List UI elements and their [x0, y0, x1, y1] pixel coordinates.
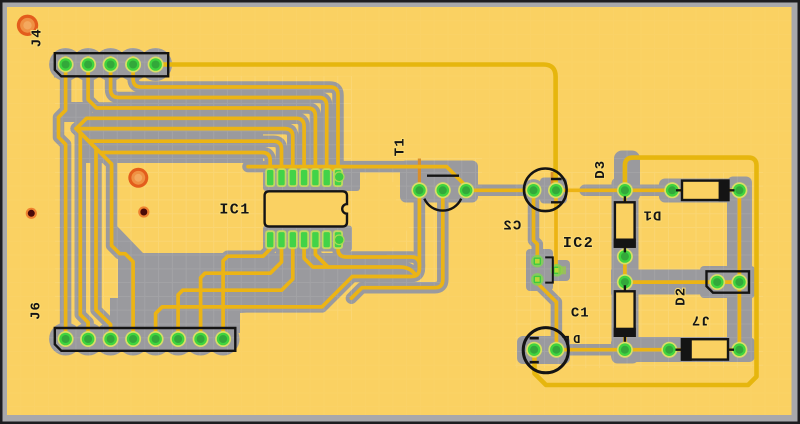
IC1 pin 3 pad (top row): [288, 168, 298, 187]
wire J4 pin2 to IC1 pin 5 clearance: [88, 58, 315, 172]
connector J4 pin 3 pad: [103, 57, 119, 73]
diode D2 cathode band: [615, 329, 635, 336]
IC1 pin 9 pad (bottom row): [322, 230, 332, 249]
connector J4 pin 4 pad: [125, 57, 141, 73]
svg-text:D2: D2: [673, 287, 689, 306]
capacitor C2 outline: [524, 169, 567, 212]
diode D1 cathode band: [615, 240, 635, 247]
connector J4 pin 2 pad clearance: [77, 53, 99, 75]
svg-text:C2: C2: [502, 218, 521, 234]
staircase clearance below island: [118, 253, 352, 313]
wire IC1 pin 12 to J6 pin6 clearance: [178, 244, 293, 332]
connector J6 pin 3 pad: [103, 331, 119, 347]
connector J6 pin 1 pad clearance: [54, 328, 76, 350]
connector J4 outline: [55, 53, 168, 76]
diode D2 anode pad: [617, 274, 633, 290]
svg-text:C1: C1: [571, 306, 590, 322]
wire loop node A to C1 minus: [535, 158, 757, 385]
connector J6 pin 8 pad clearance: [212, 328, 234, 350]
node C pad: [617, 342, 633, 358]
wire fan node to J6 pin4: [76, 129, 133, 334]
island corner 45deg clearance: [117, 226, 143, 253]
wire C1 plus to J7 anode: [556, 348, 682, 352]
wire J4 pin1 to J6 pin1: [59, 58, 66, 334]
IC1 pin 11 pad (bottom row): [299, 230, 309, 249]
IC1 pin 10 pad (bottom row): [310, 230, 320, 249]
connector J4 pad 4 clearance: [117, 48, 150, 81]
svg-text:IC1: IC1: [219, 202, 250, 219]
wire node A to D1 anode: [623, 190, 627, 202]
clearance above J6: [110, 298, 240, 333]
wire T1 base bottom-copper stub: [418, 159, 421, 185]
IC1 pin 13 pad (bottom row): [277, 230, 287, 249]
wire fan node to IC1 pin 4: [76, 118, 304, 172]
connector J6 pin 1 pad: [58, 331, 74, 347]
wire C1 plus to J7 clearance: [556, 344, 739, 356]
wire T1 collector down: [351, 186, 442, 298]
connector J6 pin 3 pad clearance: [99, 328, 121, 350]
capacitor C2 pads clearance: [522, 179, 544, 201]
loop corner clearance: [614, 151, 640, 203]
connector J4 pad 2 clearance: [72, 48, 105, 81]
connector J6 pad 4 clearance: [117, 323, 150, 356]
wire IC1 pin 13 to J6 pin7 clearance: [201, 244, 282, 332]
IC1 top pads clearance: [263, 166, 360, 192]
transistor T1 pads clearance: [408, 179, 430, 201]
wire J4 pin4 to IC1 pin 7 clearance: [133, 58, 338, 172]
diode D1 cathode pad: [617, 249, 633, 265]
wire IC1 pin 11 to U-turn clearance: [304, 244, 416, 275]
connector J5 pads: [709, 274, 725, 290]
wire T1 collector down clearance: [351, 186, 442, 298]
wire D2 cathode to node C: [623, 336, 627, 350]
transistor T1 outline flat edge: [427, 174, 459, 176]
wire fan node to J6 pin4 clearance: [76, 129, 133, 334]
svg-text:J4: J4: [30, 28, 46, 47]
svg-text:D1: D1: [643, 206, 662, 222]
connector J4 pin 1 pad: [58, 57, 74, 73]
connector J4 pin 5 pad clearance: [144, 53, 166, 75]
diode J7 pads: [661, 342, 677, 358]
wire T1 emitter to C2 minus: [466, 188, 533, 192]
diode D1 body: [615, 202, 635, 246]
connector J6 pad 7 clearance: [184, 323, 217, 356]
diode D3 pads: [664, 182, 680, 198]
wire C2 plus to node A: [556, 188, 625, 192]
wire D3 cathode to node B: [728, 188, 739, 192]
IC2 pad 2: [531, 273, 544, 286]
capacitor C2 polarity marks: [551, 179, 562, 202]
connector J6 pin 4 pad: [125, 331, 141, 347]
connector J4 pin 1 pad clearance: [54, 53, 76, 75]
wire fan node to J6 pin3 clearance: [76, 129, 110, 334]
wire IC1 pin 14 to J6 pin8: [223, 244, 270, 332]
connector J6 pad 1 clearance: [49, 323, 82, 356]
wire C2 minus to IC2 pin1: [534, 190, 538, 261]
via at IC1 pin 7: [334, 234, 345, 245]
wire IC1 pin 14 to J6 pin8 clearance: [223, 244, 270, 332]
svg-text:IC2: IC2: [563, 235, 594, 252]
IC1 pin 1 pad (top row): [265, 168, 275, 187]
wire node B vertical bus clearance: [734, 190, 746, 349]
node A pad: [617, 182, 633, 198]
diode J7 pin marks: [676, 349, 735, 351]
diode D2 body: [615, 291, 635, 336]
node A pad clearance: [614, 179, 636, 201]
wire IC1 pin 8 / T1 base / J6 pin5 (U-turn) clearance: [156, 244, 420, 332]
connector J4 pad 1 clearance: [49, 48, 82, 81]
node C pad clearance: [614, 339, 636, 361]
diode D2 anode pad clearance: [614, 271, 636, 293]
connector J6 pin 2 pad clearance: [77, 328, 99, 350]
wire J4 pin4 to IC1 pin 7: [133, 58, 338, 172]
capacitor C1 clearance: [517, 336, 570, 364]
wire fan node to IC1 pin 1 clearance: [76, 129, 270, 172]
wire IC2 pin2 to C1 plus: [537, 279, 556, 349]
bus clearance between bundle and island: [84, 118, 263, 163]
wire T1 emitter to C2 minus clearance: [466, 185, 533, 197]
mounting hole on island: [128, 168, 148, 188]
wire branch to via: [331, 167, 340, 176]
svg-text:D: D: [572, 333, 580, 347]
wire J7 cathode to node B: [728, 348, 739, 352]
capacitor C2 pads: [526, 182, 542, 198]
wire C2 plus to node A clearance: [585, 185, 625, 197]
diode D3 cathode band: [720, 181, 729, 200]
diode D1 cathode pad clearance: [614, 245, 636, 267]
right vertical bus clearance: [727, 177, 752, 363]
IC1 pin 12 pad (bottom row): [288, 230, 298, 249]
wire T1 base stub clearance: [414, 186, 426, 266]
wire C2 plus bottom-copper stub: [551, 172, 554, 184]
wire IC1 pin 10 stub: [315, 244, 328, 267]
fan junction clearance: [60, 102, 92, 122]
wire fan node to J6 pin3: [76, 129, 110, 334]
wire fan node to J6 pin2 clearance: [76, 129, 88, 334]
diode D2 pin marks: [624, 285, 626, 342]
wire fan node to IC1 pin 2 clearance: [76, 129, 281, 172]
connector J6 pin 2 pad: [80, 331, 96, 347]
wire IC1 pin 12 to J6 pin6: [178, 244, 293, 332]
wire via to T1 emitter: [248, 167, 466, 190]
connector J4 pad 5 clearance: [139, 48, 172, 81]
connector J6 pin 6 pad: [170, 331, 186, 347]
node row y349 clearance: [611, 337, 755, 362]
IC2 body bracket: [545, 257, 553, 282]
diode D3 pin marks: [676, 189, 735, 191]
capacitor C1 outline: [523, 328, 568, 373]
connector J6 pad 6 clearance: [162, 323, 195, 356]
wire J4 pin1 to J6 pin1 clearance: [59, 58, 66, 334]
diode column D1-D2 clearance: [612, 178, 639, 364]
connector J4 pin 4 pad clearance: [122, 53, 144, 75]
IC U1 (IC1) body outline: [265, 191, 347, 226]
IC2 pad 3 stub: [558, 266, 566, 274]
wire IC1 pin 11 to U-turn: [304, 244, 416, 275]
node row y282 clearance: [611, 270, 706, 295]
capacitor C2 clearance: [540, 178, 567, 204]
IC1 pin 6 pad (top row): [322, 168, 332, 187]
diode D3 clearance: [659, 179, 750, 203]
connector J6 pin 4 pad clearance: [122, 328, 144, 350]
IC1 pin 2 pad (top row): [277, 168, 287, 187]
IC2 pad 1: [531, 255, 544, 268]
diode J7 cathode band: [682, 339, 691, 359]
wire IC1 pin 13 to J6 pin7: [201, 244, 282, 332]
wire fan node to IC1 pin 3 clearance: [76, 129, 293, 172]
connector J6 pin 8 pad: [215, 331, 231, 347]
capacitor C1 polarity marks: [530, 338, 539, 362]
capacitor C1 left stub clearance: [517, 343, 528, 358]
IC1 pin 7 pad (top row): [333, 168, 343, 187]
wire J4 pin5 to C2 plus (top rail): [157, 65, 556, 187]
connector J6 outline: [55, 328, 236, 351]
wire node B vertical bus: [738, 190, 742, 349]
IC2 clearance: [526, 249, 553, 291]
connector J6 copper back: [54, 328, 236, 352]
IC1 pin 8 pad (bottom row): [333, 230, 343, 249]
mounting hole top-left: [17, 15, 38, 36]
wire node D to J5: [625, 280, 740, 284]
connector J6 pin 7 pad: [193, 331, 209, 347]
connector J6 pad 5 clearance: [139, 323, 172, 356]
diode J7 body: [682, 339, 728, 359]
capacitor C1 pads clearance: [523, 339, 545, 361]
wire via to T1 emitter clearance: [248, 167, 466, 190]
via left: [26, 208, 37, 219]
svg-text:T1: T1: [392, 137, 408, 156]
wire J4 pin2 to IC1 pin 5: [88, 58, 315, 172]
wire node A to D3 clearance: [625, 185, 740, 197]
transistor T1 clearance: [400, 161, 478, 203]
wire IC2 pin2 to C1 plus clearance: [537, 279, 556, 349]
connector J4 copper back: [54, 52, 169, 78]
wire fan node to IC1 pin 3: [76, 129, 293, 172]
svg-text:D3: D3: [593, 160, 609, 179]
wire fan node to J6 pin2: [76, 129, 88, 334]
connector J5 copper back: [700, 266, 755, 298]
wire fan node to IC1 pin 4 clearance: [76, 118, 304, 172]
wire fan node to IC1 pin 2: [76, 129, 281, 172]
diode J7 pads clearance: [658, 339, 680, 361]
connector J6 pin 7 pad clearance: [189, 328, 211, 350]
wire T1 base stub: [418, 186, 422, 266]
connector J4 pin 5 pad: [148, 57, 164, 73]
connector J4 pin 2 pad: [80, 57, 96, 73]
wire node D to J5 clearance: [625, 276, 740, 288]
connector J4 pin 3 pad clearance: [99, 53, 121, 75]
IC2 pad 3: [551, 264, 564, 277]
svg-text:J6: J6: [29, 301, 45, 320]
capacitor C1 pads: [526, 342, 542, 358]
transistor T1 pads: [411, 182, 427, 198]
transistor T1 outline arc: [424, 199, 461, 211]
connector J6 pin 5 pad: [148, 331, 164, 347]
diode D3 body: [682, 181, 728, 200]
wire IC1 pin 10 stub clearance: [315, 244, 328, 267]
connector J6 pin 6 pad clearance: [167, 328, 189, 350]
IC1 pin 4 pad (top row): [299, 168, 309, 187]
connector J6 pin 5 pad clearance: [144, 328, 166, 350]
IC2 pad3 clearance: [549, 260, 570, 281]
wire D1 cathode to D2 anode: [623, 247, 627, 292]
connector J5 outline: [707, 271, 750, 292]
silk mark near C1: [562, 337, 568, 344]
svg-text:J7: J7: [691, 312, 710, 328]
wire fan node to IC1 pin 1: [76, 129, 270, 172]
wire J4 pin3 to IC1 pin 6: [111, 58, 327, 172]
IC1 pin 5 pad (top row): [310, 168, 320, 187]
IC1 bottom pads clearance: [263, 226, 352, 252]
IC1 pin 14 pad (bottom row): [265, 230, 275, 249]
wire C2 minus to IC2 pin1 clearance: [534, 190, 538, 261]
wire IC1 pin 8 / T1 base / J6 pin5 (U-turn): [156, 244, 420, 332]
wire branch to via clearance: [331, 167, 340, 176]
connector J5 pads clearance: [706, 271, 728, 293]
connector J6 pad 8 clearance: [207, 323, 240, 356]
wire node A to D3 anode: [625, 188, 682, 192]
via at IC1 pin 8: [334, 171, 345, 182]
diode D3 pads clearance: [661, 179, 683, 201]
wire node A to D1-D2 clearance: [619, 190, 631, 349]
wire C2 plus to IC2 pin3: [554, 190, 558, 267]
via on island: [138, 206, 149, 217]
connector J6 pad 3 clearance: [94, 323, 127, 356]
connector J6 pad 2 clearance: [72, 323, 105, 356]
wire J4 pin3 to IC1 pin 6 clearance: [111, 58, 327, 172]
connector J4 pad 3 clearance: [94, 48, 127, 81]
diode D1 pin marks: [624, 196, 626, 252]
